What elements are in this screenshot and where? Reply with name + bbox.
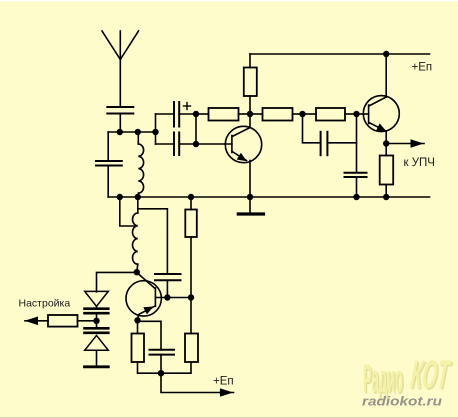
capacitor C5 [321,132,328,155]
wire Q1 collector up [249,114,251,128]
svg-text:radiokot.ru: radiokot.ru [362,395,442,409]
node varicap junction [93,318,99,324]
capacitor C2 [96,161,122,166]
node L2 bottom [134,269,140,275]
node rail L2 tap [117,194,123,200]
svg-text:к УПЧ: к УПЧ [404,157,435,169]
capacitor C7 [150,350,175,355]
wire emitter to C7 [138,321,162,350]
wire joining cap outputs [195,114,197,144]
wire C1 to node A [119,114,121,133]
ground [238,197,263,214]
antenna [102,31,139,60]
wire C7 to bottom node [160,355,162,374]
transistor Q1 [225,126,261,162]
wire C2 to bottom rail [107,166,109,198]
wire Q3 collector up [385,54,387,97]
resistor R9 tuning [48,315,97,327]
resistor R3 [250,108,303,121]
wire L2 bottom to varicaps [97,272,137,291]
wire rail to L2 top [137,197,139,213]
wire left branch down [107,132,109,161]
wire Q2 base row [155,297,191,299]
wire C4 right [179,143,196,145]
wire to Q1 base [196,143,232,145]
wire rail to L2 tap [120,197,134,226]
wire Q2 emitter node down [137,320,139,334]
capacitor C4 [174,133,179,156]
wire C8 to base node [166,280,168,297]
resistor R2 [196,108,250,121]
node bottom supply [158,370,164,376]
wire Q1 emitter down [249,161,251,198]
node C4 out [193,141,199,147]
supply feed arrow bottom [161,373,234,397]
node B [135,129,141,135]
inductor L2 [132,213,137,272]
varicap stem wire [96,306,98,308]
wire between varicaps [96,313,98,328]
wire Q3 base [357,113,369,115]
varicap VD2 [85,328,109,350]
resistor R8 [185,197,197,298]
node rail R8 [188,194,194,200]
resistor R4 [303,108,357,121]
svg-text:+Еп: +Еп [412,62,433,74]
node R8 base [188,294,194,300]
node rail ground [247,194,253,200]
resistor R1 [244,54,257,114]
wire C3 left [156,113,175,115]
wire Q3 emitter down [385,131,387,143]
node rail R5 [383,194,389,200]
node Q2 emitter [134,317,140,323]
main bottom rail [108,196,429,198]
resistor R7 [161,298,198,374]
svg-text:Настройка: Настройка [19,298,71,310]
node R3 right [299,111,305,117]
wire L2 top to feedback cap [138,209,168,274]
wire node4 down to C6 [356,114,358,173]
capacitor C1 [107,107,133,114]
wire C5 right [327,142,356,144]
wire VD2 to terminal [96,350,98,367]
wire node C to caps [155,114,157,144]
node C3 out [193,111,199,117]
capacitor C6 [345,173,367,177]
node rail C6 [353,194,359,200]
output arrow to IF [386,139,424,147]
node rail L1 bottom [135,194,141,200]
transistor Q3 [363,96,399,132]
wire C6 to bottom rail [356,177,358,197]
varicap VD1 [85,291,109,313]
watermark RadioKOT [362,353,454,408]
node Q3 base [353,111,359,117]
svg-text:+Еп: +Еп [213,376,234,388]
node Q3 emitter [383,140,389,146]
node C [152,129,158,135]
capacitor C8 feedback [155,274,181,280]
tuning arrow [25,317,49,326]
wire C4 left [156,143,175,145]
node R1 bottom [247,111,253,117]
plus sign of C3 [184,103,191,110]
svg-text:КОТ: КОТ [409,353,453,397]
node C8 base [164,294,170,300]
wire antenna to C1 [119,60,121,108]
capacitor C3 electrolytic [174,102,179,127]
wire C3 right [179,113,196,115]
wire top node row [108,131,155,133]
resistor R6 [132,334,162,374]
top supply rail [250,53,430,55]
inductor L1 [138,132,143,197]
node A [117,129,123,135]
node top rail [383,51,389,57]
resistor R5 [380,144,394,198]
transistor Q2 [126,273,161,321]
wire node3 down to C5 [303,114,321,143]
varicap bottom terminal bar [85,365,109,368]
